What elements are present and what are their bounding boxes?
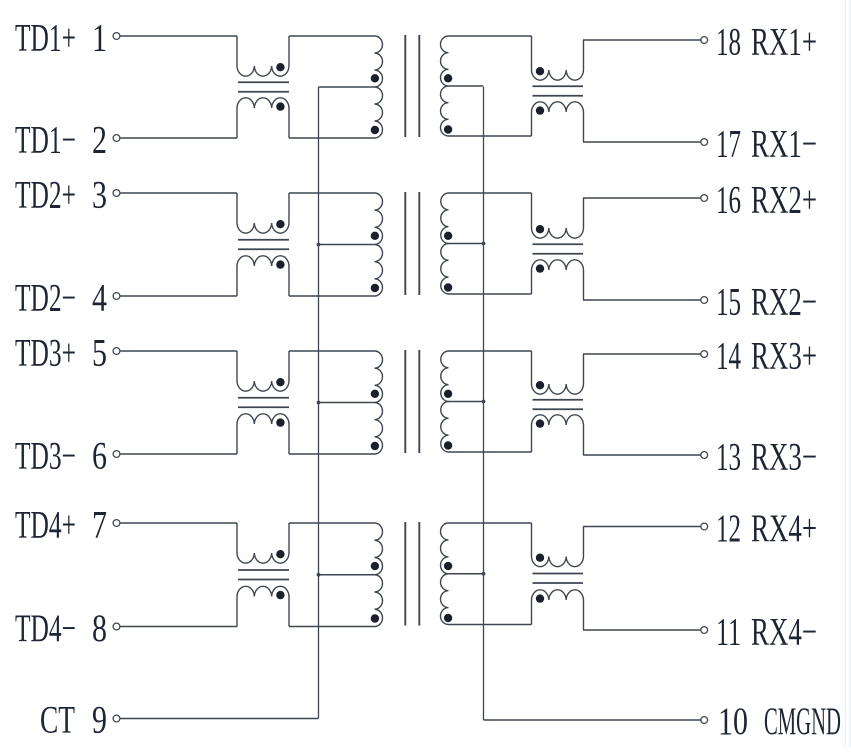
transformer T1 primary lower half <box>375 87 383 138</box>
wire T2 primary centre tap <box>319 244 375 246</box>
svg-text:3: 3 <box>92 174 107 217</box>
page edge shading right <box>845 0 846 747</box>
common-mode choke CM4A bottom winding <box>237 586 289 626</box>
pin 6 terminal <box>113 451 120 458</box>
transformer T3 secondary upper half <box>441 351 449 401</box>
common-mode choke CM3A bottom winding <box>237 414 289 454</box>
choke CM2A bottom polarity dot <box>276 260 284 268</box>
svg-text:CT: CT <box>40 699 75 742</box>
transformer T1 core <box>404 35 406 137</box>
pin 10 terminal <box>701 717 708 724</box>
pin 12 terminal <box>701 523 708 530</box>
svg-text:TD4+: TD4+ <box>15 504 76 547</box>
pin 4 terminal <box>113 293 120 300</box>
wire choke to pin 13 <box>583 454 701 456</box>
svg-text:TD2+: TD2+ <box>15 174 76 217</box>
pin 5 terminal <box>113 348 120 355</box>
svg-text:RX3−: RX3− <box>751 436 817 479</box>
common-mode choke CM3B bottom winding <box>532 415 584 455</box>
T4 secondary upper polarity dot <box>444 562 452 570</box>
wire choke to pin 11 <box>583 629 701 631</box>
wire pin 5 to choke <box>120 350 237 352</box>
common-mode choke CM2A top winding <box>237 193 289 233</box>
pin 17 terminal <box>701 139 708 146</box>
wire choke to transformer top <box>289 192 375 194</box>
wire choke to transformer bottom <box>289 626 375 628</box>
wire choke to transformer top <box>289 35 375 37</box>
T3 secondary lower polarity dot <box>444 441 452 449</box>
svg-text:TD3−: TD3− <box>15 435 76 478</box>
pin 13 terminal <box>701 452 708 459</box>
choke CM3A bottom polarity dot <box>276 418 284 426</box>
svg-text:CMGND: CMGND <box>764 700 841 743</box>
choke CM3B bottom polarity dot <box>536 419 544 427</box>
wire pin 4 to choke <box>120 295 237 297</box>
svg-text:5: 5 <box>92 332 107 375</box>
choke CM4B core <box>533 573 584 575</box>
svg-text:RX4−: RX4− <box>751 611 817 654</box>
transformer T2 core <box>404 192 406 295</box>
svg-text:10: 10 <box>718 700 748 743</box>
common-mode choke CM1B top winding <box>532 36 584 80</box>
wire pin 3 to choke <box>120 192 237 194</box>
svg-text:1: 1 <box>92 17 107 60</box>
T1 primary lower polarity dot <box>371 126 379 134</box>
choke CM2B core <box>533 243 584 245</box>
choke CM2A top polarity dot <box>276 220 284 228</box>
wire transformer to right choke top <box>449 192 532 194</box>
pin 15 terminal <box>701 297 708 304</box>
choke CM4A top polarity dot <box>276 550 284 558</box>
wire choke to pin 14 <box>583 353 701 355</box>
wire choke to transformer top <box>289 522 375 524</box>
T4 secondary lower polarity dot <box>444 614 452 622</box>
T3 primary upper polarity dot <box>371 390 379 398</box>
svg-text:6: 6 <box>92 435 107 478</box>
common-mode choke CM1B bottom winding <box>532 102 584 142</box>
T2 secondary upper polarity dot <box>444 232 452 240</box>
svg-text:2: 2 <box>92 119 107 162</box>
choke CM1A top polarity dot <box>276 63 284 71</box>
svg-text:13: 13 <box>716 436 741 479</box>
pin 3 terminal <box>113 190 120 197</box>
choke CM3A top polarity dot <box>276 378 284 386</box>
svg-text:TD2−: TD2− <box>15 277 76 320</box>
pin 11 terminal <box>701 627 708 634</box>
wire pin 8 to choke <box>120 626 237 628</box>
choke CM3B top polarity dot <box>536 381 544 389</box>
wire transformer to right choke bottom <box>449 293 532 295</box>
wire T3 primary centre tap <box>319 402 375 404</box>
svg-text:RX3+: RX3+ <box>751 335 817 378</box>
common-mode choke CM2A bottom winding <box>237 256 289 296</box>
choke CM1B core <box>533 85 584 87</box>
junction CT bus left ch2 <box>317 243 321 247</box>
svg-text:16: 16 <box>716 179 741 222</box>
junction CT bus left ch3 <box>317 401 321 405</box>
transformer T2 secondary lower half <box>441 244 449 294</box>
T3 secondary upper polarity dot <box>444 390 452 398</box>
common-mode choke CM3B top winding <box>532 351 584 394</box>
pin 16 terminal <box>701 195 708 202</box>
common-mode choke CM1A bottom winding <box>237 98 289 138</box>
choke CM2B bottom polarity dot <box>536 264 544 272</box>
transformer T3 primary upper half <box>375 351 383 403</box>
wire T1 primary centre tap <box>319 86 375 88</box>
transformer T1 secondary upper half <box>440 36 448 86</box>
svg-text:9: 9 <box>92 699 107 742</box>
choke CM1B top polarity dot <box>536 67 544 75</box>
wire T3 secondary centre tap <box>449 401 484 403</box>
T1 primary upper polarity dot <box>371 74 379 82</box>
wire pin 6 to choke <box>120 453 237 455</box>
svg-text:TD3+: TD3+ <box>15 332 76 375</box>
svg-text:4: 4 <box>92 277 107 320</box>
wire pin 1 to choke <box>120 35 237 37</box>
wire transformer to right choke top <box>449 35 532 37</box>
choke CM2A core <box>238 239 289 241</box>
wire choke to transformer bottom <box>289 137 375 139</box>
junction CT bus right ch3 <box>482 400 486 404</box>
svg-text:TD4−: TD4− <box>15 607 76 650</box>
junction CT bus left ch4 <box>317 573 321 577</box>
wire choke to transformer top <box>289 350 375 352</box>
choke CM1B bottom polarity dot <box>536 106 544 114</box>
svg-text:11: 11 <box>716 611 741 654</box>
T1 secondary upper polarity dot <box>444 74 452 82</box>
choke CM4A core <box>238 569 289 571</box>
svg-text:RX4+: RX4+ <box>751 507 817 550</box>
common-mode choke CM4A top winding <box>237 523 289 563</box>
choke CM1A bottom polarity dot <box>276 102 284 110</box>
wire T4 primary centre tap <box>319 574 375 576</box>
transformer T3 core <box>404 350 406 453</box>
pin 8 terminal <box>113 623 120 630</box>
choke CM4B top polarity dot <box>536 554 544 562</box>
common-mode choke CM2B bottom winding <box>532 260 584 300</box>
transformer T3 secondary lower half <box>441 402 449 452</box>
svg-text:12: 12 <box>716 507 741 550</box>
pin 14 terminal <box>701 351 708 358</box>
svg-text:RX1−: RX1− <box>751 123 817 166</box>
svg-text:7: 7 <box>92 504 107 547</box>
transformer T4 secondary upper half <box>441 523 449 574</box>
transformer T2 secondary upper half <box>441 193 449 243</box>
CT bus right vertical <box>483 87 485 720</box>
transformer T2 primary upper half <box>375 193 383 245</box>
CT bus left vertical <box>318 87 320 719</box>
T4 primary lower polarity dot <box>371 614 379 622</box>
pin 18 terminal <box>701 37 708 44</box>
wire T4 secondary centre tap <box>449 573 484 575</box>
wire CT bus right to pin 10 <box>484 719 701 721</box>
common-mode choke CM4B bottom winding <box>532 590 584 630</box>
common-mode choke CM2B top winding <box>532 193 584 238</box>
wire choke to pin 17 <box>583 141 701 143</box>
transformer T4 primary upper half <box>375 523 383 575</box>
wire transformer to right choke bottom <box>449 624 532 626</box>
choke CM3B core <box>533 399 584 401</box>
choke CM4A bottom polarity dot <box>276 591 284 599</box>
transformer T4 core <box>404 522 406 626</box>
svg-text:18: 18 <box>716 21 741 64</box>
wire T2 secondary centre tap <box>449 243 484 245</box>
T2 secondary lower polarity dot <box>444 283 452 291</box>
wire pin 7 to choke <box>120 522 237 524</box>
wire transformer to right choke top <box>449 350 532 352</box>
pin 9 terminal <box>113 715 120 722</box>
common-mode choke CM3A top winding <box>237 351 289 391</box>
wire choke to transformer bottom <box>289 295 375 297</box>
svg-text:17: 17 <box>716 123 741 166</box>
junction CT bus right ch4 <box>482 572 486 576</box>
T2 primary upper polarity dot <box>371 232 379 240</box>
choke CM1A core <box>238 81 289 83</box>
junction CT bus right ch2 <box>482 242 486 246</box>
svg-text:TD1+: TD1+ <box>15 17 76 60</box>
wire pin 9 to CT bus <box>120 718 318 720</box>
wire choke to pin 16 <box>583 197 701 199</box>
common-mode choke CM1A top winding <box>237 36 289 76</box>
wire choke to transformer bottom <box>289 453 375 455</box>
transformer T1 primary upper half <box>375 36 383 87</box>
T1 secondary lower polarity dot <box>444 125 452 133</box>
svg-text:RX2−: RX2− <box>751 281 817 324</box>
T4 primary upper polarity dot <box>371 562 379 570</box>
pin 7 terminal <box>113 520 120 527</box>
choke CM2B top polarity dot <box>536 225 544 233</box>
choke CM3A core <box>238 397 289 399</box>
svg-text:RX2+: RX2+ <box>751 179 817 222</box>
svg-text:TD1−: TD1− <box>15 119 76 162</box>
wire transformer to right choke top <box>449 522 532 524</box>
transformer T2 primary lower half <box>375 245 383 297</box>
pin 1 terminal <box>113 33 120 40</box>
svg-text:14: 14 <box>716 335 741 378</box>
svg-text:15: 15 <box>716 281 741 324</box>
transformer T1 secondary lower half <box>440 86 448 136</box>
wire choke to pin 15 <box>583 299 701 301</box>
transformer T4 secondary lower half <box>441 574 449 625</box>
svg-text:8: 8 <box>92 607 107 650</box>
wire pin 2 to choke <box>120 137 237 139</box>
choke CM4B bottom polarity dot <box>536 594 544 602</box>
wire T1 secondary centre tap <box>449 85 484 87</box>
wire transformer to right choke bottom <box>449 135 532 137</box>
T3 primary lower polarity dot <box>371 442 379 450</box>
T2 primary lower polarity dot <box>371 284 379 292</box>
common-mode choke CM4B top winding <box>532 523 584 567</box>
transformer T3 primary lower half <box>375 403 383 455</box>
wire choke to pin 12 <box>583 526 701 528</box>
transformer T4 primary lower half <box>375 575 383 627</box>
pin 2 terminal <box>113 135 120 142</box>
wire choke to pin 18 <box>583 39 701 41</box>
wire transformer to right choke bottom <box>449 451 532 453</box>
svg-text:RX1+: RX1+ <box>751 21 817 64</box>
